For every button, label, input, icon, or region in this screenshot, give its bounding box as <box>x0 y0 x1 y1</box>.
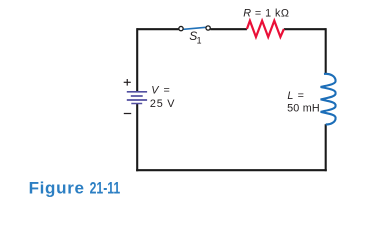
svg-text:Figure: Figure <box>29 178 85 197</box>
svg-text:50 mH: 50 mH <box>287 103 320 115</box>
svg-text:25 V: 25 V <box>150 98 175 110</box>
svg-text:L =: L = <box>287 90 304 102</box>
svg-text:21-11: 21-11 <box>90 180 121 198</box>
svg-text:V =: V = <box>151 85 171 97</box>
svg-text:R = 1 kΩ: R = 1 kΩ <box>243 7 289 19</box>
svg-text:1: 1 <box>197 36 202 46</box>
